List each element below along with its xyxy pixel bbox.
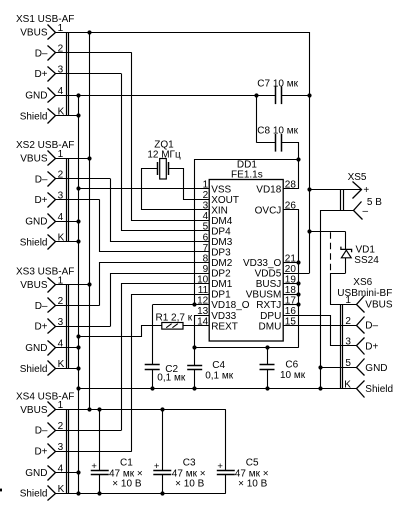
svg-text:D+: D+	[34, 322, 47, 333]
svg-text:VBUS: VBUS	[20, 28, 48, 39]
svg-text:DP1: DP1	[211, 290, 231, 301]
wire VD33 pin 13 down	[195, 316, 210, 348]
wire XS5 plus to 5V vertical	[309, 189, 361, 191]
wire C7-C8 branch down	[256, 95, 258, 143]
connector XS3 USB-AF	[16, 267, 74, 376]
wire XS1 GND to C7	[56, 95, 275, 97]
capacitor C4 0.1u	[187, 360, 234, 382]
wire VD18_O pin 12 left	[153, 304, 210, 306]
connector XS6 USBmini-BF	[337, 277, 393, 397]
svg-text:Shield: Shield	[365, 384, 393, 395]
wire VDD5 pin 20 stub	[284, 273, 310, 275]
svg-text:VD18_O: VD18_O	[211, 300, 250, 311]
wire DMU pin 15 to XS6 D-	[283, 325, 356, 327]
wire XS1 D+ to DP4 pin 5	[122, 74, 210, 231]
svg-text:XS6: XS6	[353, 277, 372, 288]
connector XS1 USB-AF	[16, 14, 74, 124]
svg-text:+: +	[217, 461, 223, 472]
junction XS2 Shield / GND bus	[76, 239, 80, 243]
svg-text:D+: D+	[34, 69, 47, 80]
svg-text:SS24: SS24	[354, 255, 379, 266]
svg-text:XS4 USB-AF: XS4 USB-AF	[16, 391, 74, 402]
wire C4 bottom lead	[194, 369, 196, 388]
wire XS4 D+ to DP1 pin 11	[132, 295, 210, 452]
wire GND rail to XS6 Shield	[79, 388, 356, 390]
wire XS2 GND	[56, 221, 79, 223]
svg-text:7: 7	[203, 243, 209, 254]
wire XS2 D- to DM3 pin 6	[111, 179, 210, 242]
junction VD33 rail / C4	[192, 345, 196, 349]
capacitor C6 10u	[260, 360, 306, 382]
svg-text:XS1 USB-AF: XS1 USB-AF	[16, 14, 74, 25]
svg-text:Shield: Shield	[20, 237, 48, 248]
svg-text:4: 4	[203, 211, 209, 222]
junction XS3 VBUS / VBUS bus	[87, 282, 91, 286]
wire C8 left lead	[257, 142, 275, 144]
wire ZQ1 right to XOUT pin 2	[169, 169, 210, 200]
svg-text:D+: D+	[34, 195, 47, 206]
wire R1 to REXT pin 14	[183, 325, 209, 327]
wire XS6 VBUS	[330, 304, 356, 306]
capacitor C1 47u 10V electrolytic	[91, 409, 143, 493]
svg-text:DM3: DM3	[211, 237, 233, 248]
svg-text:D–: D–	[35, 301, 48, 312]
junction 5V / XS5 plus	[307, 187, 311, 191]
svg-text:GND: GND	[25, 91, 47, 102]
wire VD18_O down to C2	[152, 305, 154, 365]
svg-text:VBUS: VBUS	[20, 154, 48, 165]
wire XS4 VBUS to C5	[56, 409, 226, 411]
junction 5V / VD1 branch	[307, 229, 311, 233]
svg-text:GND: GND	[25, 217, 47, 228]
wire XS3 GND	[56, 347, 79, 349]
capacitor C5 47u 10V electrolytic	[217, 409, 269, 493]
wire XS4 D+ right	[56, 451, 132, 453]
junction pin 19 / 3.3V vertical	[296, 281, 300, 285]
svg-text:VD18: VD18	[256, 184, 281, 195]
wire GND bus vertical	[78, 95, 80, 493]
wire VD18 rail down to pin 12	[194, 159, 196, 304]
svg-text:VBUS: VBUS	[20, 280, 48, 291]
svg-text:XOUT: XOUT	[211, 195, 239, 206]
wire XS4 Shield / bottom GND rail	[56, 493, 226, 495]
connector XS5 power 5V	[341, 172, 383, 220]
svg-text:C5: C5	[246, 457, 259, 468]
svg-text:6: 6	[203, 232, 209, 243]
wire DPU pin 16 to XS6 D+	[284, 316, 357, 346]
svg-text:BUSJ: BUSJ	[256, 279, 282, 290]
connector XS4 USB-AF	[16, 391, 74, 500]
junction pin 17 / 3.3V vertical	[296, 302, 300, 306]
wire VBUS bus vertical	[89, 32, 91, 409]
wire XS2 VBUS	[56, 158, 90, 160]
wire 5V vertical right side	[309, 32, 311, 273]
svg-text:× 10 В: × 10 В	[112, 479, 142, 490]
wire VD33 rail horizontal	[195, 347, 299, 349]
wire OVCJ pin 26 down to VD33 rail	[284, 210, 299, 348]
junction XS2 VBUS / VBUS bus	[87, 156, 91, 160]
junction XS1 Shield / GND bus	[76, 113, 80, 117]
svg-text:0,1 мк: 0,1 мк	[205, 370, 234, 381]
junction C7 / 5V vertical	[307, 93, 311, 97]
capacitor C7 10u	[257, 79, 298, 105]
junction VD33 rail / C6	[265, 345, 269, 349]
wire XS4 D- to DM1 pin 10	[122, 284, 210, 431]
svg-text:XS3 USB-AF: XS3 USB-AF	[16, 267, 74, 278]
svg-text:5 В: 5 В	[367, 197, 382, 208]
junction C4 / GND rail	[192, 386, 196, 390]
junction XS4 Shield / GND bus	[76, 491, 80, 495]
svg-text:DP3: DP3	[211, 248, 231, 259]
wire XS2 D+ to DP3 pin 7	[100, 200, 210, 252]
svg-text:D–: D–	[35, 174, 48, 185]
svg-text:D–: D–	[35, 48, 48, 59]
svg-text:OVCJ: OVCJ	[255, 205, 282, 216]
svg-text:DMU: DMU	[259, 321, 282, 332]
junction XS5 minus / XS6 GND	[318, 365, 322, 369]
svg-text:GND: GND	[25, 343, 47, 354]
junction C1 top	[97, 407, 101, 411]
svg-text:DP2: DP2	[211, 269, 231, 280]
svg-text:DM1: DM1	[211, 279, 233, 290]
svg-text:C7 10 мк: C7 10 мк	[257, 79, 298, 90]
svg-text:RXTJ: RXTJ	[256, 300, 281, 311]
svg-text:Shield: Shield	[20, 489, 48, 500]
junction XS3 Shield / GND bus	[76, 366, 80, 370]
wire VD18 rail horizontal	[194, 159, 299, 161]
junction VD18_O pin 12	[192, 302, 196, 306]
svg-text:VD33_O: VD33_O	[243, 258, 282, 269]
svg-text:K: K	[344, 379, 351, 390]
junction pin 18 / 3.3V vertical	[296, 292, 300, 296]
svg-text:C3: C3	[183, 457, 196, 468]
capacitor C2 0.1u	[145, 364, 186, 384]
svg-text:DP4: DP4	[211, 227, 231, 238]
resistor R1 2.7k	[156, 313, 193, 329]
wire XS3 D+ to DP2 pin 9	[111, 274, 210, 327]
svg-text:DM2: DM2	[211, 258, 233, 269]
svg-text:8: 8	[203, 253, 209, 264]
node A : stray mark at left edge	[0, 489, 2, 492]
svg-text:Shield: Shield	[20, 364, 48, 375]
junction XS4 VBUS / VBUS bus	[87, 407, 91, 411]
wire XS4 D- right	[56, 430, 121, 432]
wire R1 left to GND bus	[79, 326, 162, 337]
svg-text:C1: C1	[120, 457, 133, 468]
svg-text:VD1: VD1	[356, 245, 376, 256]
svg-text:GND: GND	[25, 468, 47, 479]
wire RXTJ pin 17 stub	[283, 304, 299, 306]
junction XS1 VBUS / VBUS bus	[87, 30, 91, 34]
wire XS6 GND	[320, 367, 356, 369]
wire C8 right lead down	[282, 143, 299, 160]
junction XS3 GND / GND bus	[76, 345, 80, 349]
svg-text:VD33: VD33	[211, 311, 236, 322]
svg-text:10 мк: 10 мк	[280, 370, 306, 381]
svg-text:VBUS: VBUS	[20, 405, 48, 416]
junction C2 / GND rail	[150, 386, 154, 390]
svg-text:VSS: VSS	[211, 184, 231, 195]
wire XS3 Shield	[56, 368, 79, 370]
svg-text:2: 2	[203, 190, 209, 201]
wire C6 bottom lead	[267, 369, 269, 389]
svg-text:× 10 В: × 10 В	[238, 479, 268, 490]
wire VD33_O pin 21 stub	[283, 262, 299, 264]
junction VD18 rail / C8	[296, 157, 300, 161]
svg-text:VBUSM: VBUSM	[246, 290, 282, 301]
wire XS2 Shield	[56, 241, 79, 243]
svg-text:VDD5: VDD5	[255, 269, 282, 280]
svg-text:DPU: DPU	[260, 311, 281, 322]
wire C2 bottom to GND rail	[152, 369, 154, 388]
wire VSS pin 1 to GND bus	[79, 188, 210, 190]
svg-text:XS2 USB-AF: XS2 USB-AF	[16, 140, 74, 151]
svg-text:D–: D–	[35, 426, 48, 437]
svg-text:+: +	[363, 185, 369, 196]
capacitor C3 47u 10V electrolytic	[153, 409, 205, 493]
junction C6 / GND rail	[265, 386, 269, 390]
IC DD1 FE1.1s USB hub controller	[197, 160, 296, 341]
crystal ZQ1 12 MHz	[147, 139, 181, 179]
svg-text:5: 5	[203, 222, 209, 233]
svg-text:C4: C4	[212, 360, 225, 371]
junction GND rail / XS5 minus vertical	[318, 386, 322, 390]
junction XS1 GND / GND bus	[76, 93, 80, 97]
wire C6 top lead	[267, 347, 269, 364]
junction C1 bottom	[97, 491, 101, 495]
wire XS3 D+ right	[56, 326, 110, 328]
svg-text:REXT: REXT	[211, 321, 238, 332]
wire XS1 D+ right	[56, 73, 121, 75]
junction R1 / GND bus	[76, 334, 80, 338]
svg-text:11: 11	[198, 285, 209, 296]
svg-text:D–: D–	[365, 321, 378, 332]
wire VBUSM pin 18 stub	[283, 294, 299, 296]
svg-text:1: 1	[203, 180, 209, 191]
wire XS2 D+ right	[56, 199, 100, 201]
svg-text:× 10 В: × 10 В	[175, 479, 205, 490]
junction XS2 GND / GND bus	[76, 219, 80, 223]
junction C7 left / C8 branch	[254, 93, 258, 97]
wire ZQ1 left to XIN pin 3	[142, 169, 210, 210]
svg-text:XIN: XIN	[211, 205, 228, 216]
wire 5V to VD1 cathode	[309, 231, 345, 233]
wire VD1 bypass dashed	[330, 232, 332, 272]
capacitor C8 10u	[257, 126, 298, 152]
svg-text:D+: D+	[34, 447, 47, 458]
svg-text:0,1 мк: 0,1 мк	[157, 373, 186, 384]
junction XS4 GND / GND bus	[76, 470, 80, 474]
wire VD18 pin 28 up	[284, 160, 299, 189]
wire XS1 D- to DM4 pin 4	[132, 53, 210, 221]
svg-text:XS5: XS5	[348, 172, 367, 183]
junction GND rail / GND bus	[76, 386, 80, 390]
wire XS3 VBUS	[56, 284, 90, 286]
svg-text:GND: GND	[365, 363, 387, 374]
svg-text:DM4: DM4	[211, 216, 233, 227]
junction VSS / GND bus	[76, 186, 80, 190]
wire XS3 D- right	[56, 305, 100, 307]
svg-text:9: 9	[203, 264, 209, 275]
wire XS1 Shield	[56, 115, 79, 117]
wire BUSJ pin 19 stub	[283, 283, 299, 285]
wire XS2 D- right	[56, 178, 110, 180]
junction pin 21 / 3.3V vertical	[296, 260, 300, 264]
svg-text:FE1.1s: FE1.1s	[231, 170, 263, 181]
wire XS1 D- right	[56, 52, 132, 54]
svg-text:+: +	[91, 461, 97, 472]
svg-text:Shield: Shield	[20, 111, 48, 122]
junction C3 top	[160, 407, 164, 411]
svg-text:D+: D+	[365, 341, 378, 352]
svg-text:–: –	[363, 206, 369, 217]
wire VD1 anode to XS6 VBUS	[331, 274, 346, 305]
svg-text:+: +	[154, 461, 160, 472]
wire XS5 minus down to GND rail	[321, 211, 354, 389]
junction C3 bottom	[160, 491, 164, 495]
wire C4 top lead	[194, 347, 196, 365]
svg-text:3: 3	[203, 201, 209, 212]
svg-text:C6: C6	[285, 360, 298, 371]
wire C7 right lead	[282, 95, 310, 97]
connector XS2 USB-AF	[16, 140, 74, 250]
svg-text:10: 10	[197, 274, 209, 285]
svg-text:VBUS: VBUS	[365, 300, 393, 311]
svg-text:C8 10 мк: C8 10 мк	[257, 126, 298, 137]
diode VD1 SS24 Schottky	[341, 232, 379, 274]
wire XS1 VBUS to 5V corner	[56, 32, 310, 34]
wire XS3 D- to DM2 pin 8	[100, 263, 210, 306]
wire XS4 GND	[56, 472, 79, 474]
